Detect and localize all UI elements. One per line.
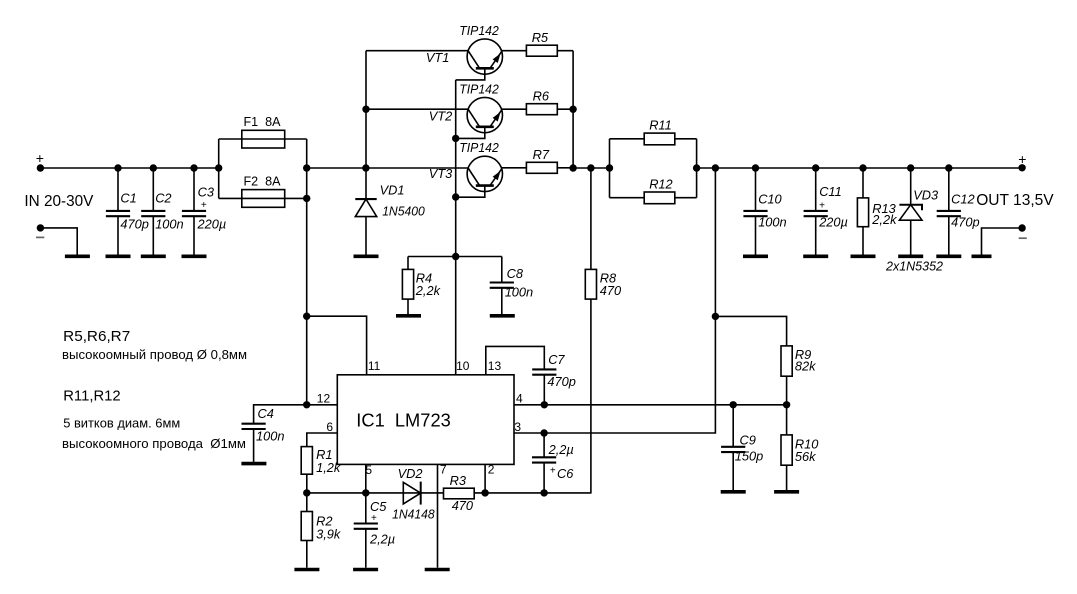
svg-text:6: 6: [326, 420, 333, 434]
svg-text:R12: R12: [649, 177, 672, 192]
svg-text:F2 8A: F2 8A: [244, 173, 281, 188]
svg-text:4: 4: [516, 391, 523, 405]
svg-text:56k: 56k: [795, 449, 816, 464]
svg-text:C1: C1: [120, 190, 136, 205]
svg-text:C10: C10: [758, 191, 782, 206]
svg-text:C12: C12: [951, 191, 974, 206]
svg-text:IN 20-30V: IN 20-30V: [24, 193, 94, 210]
svg-text:470p: 470p: [547, 374, 575, 389]
svg-text:470p: 470p: [951, 214, 979, 229]
svg-text:+: +: [550, 466, 556, 477]
svg-text:R5: R5: [532, 30, 549, 45]
svg-text:VD3: VD3: [913, 187, 938, 202]
svg-text:10: 10: [456, 359, 470, 373]
svg-text:VT3: VT3: [429, 166, 452, 181]
svg-text:C11: C11: [819, 184, 842, 199]
svg-text:11: 11: [368, 359, 381, 373]
svg-text:150p: 150p: [735, 448, 763, 463]
svg-text:высокоомного провода Ø1мм: высокоомного провода Ø1мм: [62, 436, 246, 451]
svg-text:1N4148: 1N4148: [392, 507, 435, 522]
svg-text:100n: 100n: [155, 216, 183, 231]
svg-text:82k: 82k: [795, 358, 816, 373]
svg-text:R3: R3: [450, 473, 466, 488]
svg-text:470p: 470p: [120, 216, 148, 231]
svg-text:13: 13: [488, 359, 502, 373]
svg-text:220µ: 220µ: [818, 215, 848, 230]
svg-text:+: +: [1018, 151, 1026, 167]
svg-text:R6: R6: [533, 88, 550, 103]
svg-text:C4: C4: [258, 406, 274, 421]
svg-text:2,2µ: 2,2µ: [369, 532, 395, 547]
svg-text:2x1N5352: 2x1N5352: [885, 259, 943, 274]
svg-text:R11,R12: R11,R12: [63, 388, 120, 405]
svg-text:IC1 LM723: IC1 LM723: [356, 411, 451, 431]
svg-text:2,2k: 2,2k: [415, 283, 441, 298]
svg-text:C3: C3: [198, 185, 214, 200]
svg-text:R7: R7: [533, 147, 550, 162]
svg-text:C8: C8: [507, 266, 524, 281]
svg-text:TIP142: TIP142: [459, 81, 499, 96]
svg-text:2: 2: [488, 463, 495, 477]
svg-text:470: 470: [600, 283, 622, 298]
svg-text:+: +: [36, 150, 44, 166]
svg-text:220µ: 220µ: [197, 216, 227, 231]
svg-text:+: +: [201, 200, 207, 211]
svg-text:C7: C7: [548, 352, 565, 367]
svg-text:OUT 13,5V: OUT 13,5V: [976, 192, 1054, 209]
svg-text:1,2k: 1,2k: [316, 460, 341, 475]
svg-text:VD2: VD2: [398, 466, 423, 481]
svg-text:100n: 100n: [256, 429, 284, 444]
svg-text:TIP142: TIP142: [459, 140, 499, 155]
svg-text:100n: 100n: [505, 285, 533, 300]
svg-text:2,2µ: 2,2µ: [548, 442, 574, 457]
svg-text:R5,R6,R7: R5,R6,R7: [63, 328, 130, 345]
svg-text:C5: C5: [370, 499, 387, 514]
svg-text:VT1: VT1: [426, 50, 449, 65]
svg-text:TIP142: TIP142: [459, 23, 499, 38]
svg-text:1N5400: 1N5400: [382, 204, 425, 219]
svg-text:C2: C2: [155, 190, 171, 205]
svg-text:2,2k: 2,2k: [871, 212, 897, 227]
svg-text:3: 3: [514, 420, 521, 434]
svg-text:470: 470: [452, 498, 474, 513]
svg-text:C9: C9: [740, 433, 756, 448]
svg-text:C6: C6: [557, 466, 574, 481]
svg-text:R11: R11: [649, 118, 672, 133]
svg-text:F1 8A: F1 8A: [244, 114, 281, 129]
svg-text:100n: 100n: [758, 215, 786, 230]
svg-text:VD1: VD1: [380, 183, 405, 198]
svg-text:высокоомный провод Ø 0,8мм: высокоомный провод Ø 0,8мм: [62, 347, 247, 362]
svg-text:+: +: [819, 201, 825, 212]
svg-text:VT2: VT2: [429, 109, 452, 124]
svg-text:3,9k: 3,9k: [316, 526, 341, 541]
svg-text:12: 12: [317, 391, 331, 405]
svg-text:7: 7: [440, 463, 447, 477]
svg-text:5 витков диам. 6мм: 5 витков диам. 6мм: [63, 415, 180, 430]
svg-text:+: +: [371, 513, 377, 524]
